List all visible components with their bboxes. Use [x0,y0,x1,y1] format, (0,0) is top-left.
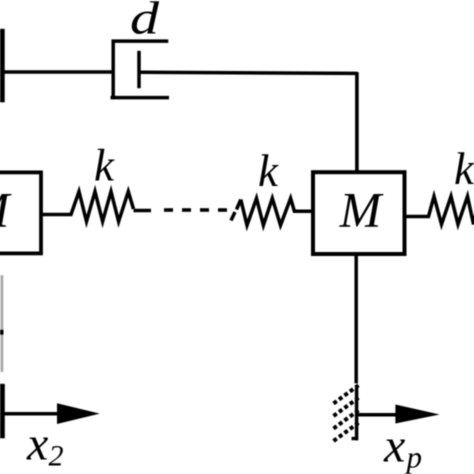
svg-text:k: k [258,146,279,196]
rod from wall to damper [2,70,113,74]
arrow x2 [3,403,100,424]
wall line bottom right [355,387,359,440]
svg-text:2: 2 [49,440,64,473]
label k2 [258,146,279,196]
mass M2 label [339,182,384,238]
label k1 [94,141,115,191]
label k3 (clipped) [454,144,474,194]
tick on gray line [0,330,4,336]
svg-text:d: d [130,0,160,45]
damper d cylinder [111,40,170,100]
svg-text:p: p [405,440,423,474]
svg-text:x: x [383,420,405,473]
spring k3 (right, clipped) [405,196,474,224]
wall anchor bar top-left [0,29,5,103]
mass M2 box [313,172,405,254]
rod from damper piston to vertical drop [139,72,357,73]
damper piston [137,51,141,88]
spring k2 [241,198,313,225]
mass M1 box (left, clipped) [0,172,41,253]
label x2 [26,418,64,473]
label xp [383,420,422,474]
svg-text:k: k [94,141,115,191]
arrow xp [357,405,440,424]
spring k1 [43,192,134,222]
spring k2 broken start [231,200,241,221]
vertical rod down to mass M2 [355,72,359,173]
mass M1 label (clipped M) [0,182,12,238]
base bar bottom-left [0,384,5,439]
svg-text:x: x [26,418,48,471]
wall hatching [334,385,359,441]
gray guide line below mass M1 [1,275,4,372]
dashed link between springs [134,208,228,212]
svg-text:M: M [339,182,384,238]
wall foot tick [352,437,359,440]
label d [130,0,160,45]
vertical rod below mass M2 [354,255,358,383]
svg-text:k: k [454,144,474,194]
